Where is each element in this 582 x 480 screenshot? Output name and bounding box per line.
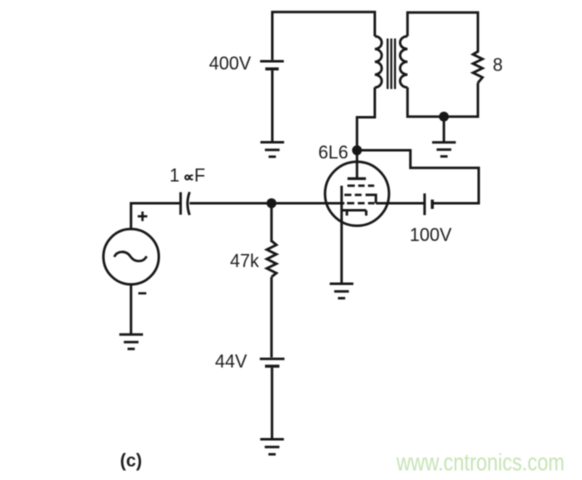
svg-text:8: 8	[493, 55, 503, 75]
plus sign	[138, 212, 148, 222]
wire: primary bottom jog to 6L6 plate node	[357, 87, 375, 150]
svg-text:www.cntronics.com: www.cntronics.com	[396, 450, 565, 477]
tube cathode	[342, 210, 367, 215]
wire: plate node to screen loop (right), down to 100V battery	[357, 150, 479, 203]
battery B1 400V	[260, 61, 284, 69]
svg-text:(c): (c)	[120, 451, 142, 471]
wire: node down to 47k	[270, 203, 273, 242]
wire: 47k bottom to 44V battery	[270, 277, 273, 357]
resistor R2 47k	[267, 241, 277, 277]
wire: input node to tube grid 1	[272, 202, 345, 205]
transformer T1 core	[388, 39, 395, 90]
wire: junction to ground	[443, 117, 446, 142]
node: secondary-ground junction	[439, 112, 449, 122]
tube plate	[348, 177, 366, 180]
ground (44V battery)	[260, 439, 284, 454]
wire: secondary top to load resistor	[408, 13, 478, 53]
minus sign	[138, 292, 146, 294]
svg-text:100V: 100V	[410, 225, 452, 245]
tube plate lead	[356, 150, 359, 178]
wire: 44V bottom to ground	[271, 368, 274, 439]
wire: 400V battery top to transformer primary top	[272, 12, 375, 60]
node B: grid input node	[267, 198, 277, 208]
wire: source bottom to ground	[130, 284, 133, 334]
AC source V1	[103, 229, 158, 284]
wire: capacitor to input node	[190, 202, 272, 205]
tube grid 1 control (dashed)	[347, 202, 375, 204]
tube grid 3 (dashed, tied to cathode line)	[347, 184, 374, 186]
svg-text:47k: 47k	[230, 251, 260, 271]
ground (AC source)	[119, 335, 143, 349]
battery B2 44V	[260, 359, 285, 366]
transformer T1 primary winding	[375, 36, 382, 87]
svg-text:6L6: 6L6	[318, 143, 348, 163]
ground (secondary center tap)	[432, 142, 456, 156]
node A: 6L6 plate node	[352, 145, 362, 155]
wire: 400V battery bottom to ground	[271, 70, 274, 142]
svg-text:44V: 44V	[215, 351, 247, 371]
tube grid 2 screen (dashed) with tap to right	[344, 194, 361, 196]
sine symbol	[114, 252, 146, 261]
svg-text:F: F	[194, 165, 205, 185]
tube U1 6L6 envelope	[325, 162, 389, 226]
wire: 100V battery to tube screen tap	[376, 202, 425, 205]
battery B3 100V	[425, 193, 433, 215]
resistor R1 8 ohm	[473, 52, 483, 83]
label 1 uF	[170, 165, 206, 185]
svg-text:1: 1	[170, 165, 180, 185]
tube beam plate / cathode lead (vertical)	[340, 186, 343, 284]
wire: resistor bottom / secondary bottom	[408, 83, 478, 117]
ground (cathode)	[330, 284, 354, 298]
glyph: proportional-to (mu stand-in)	[185, 175, 193, 179]
svg-text:400V: 400V	[209, 54, 251, 74]
ground (below 400V battery)	[260, 142, 284, 156]
transformer T1 secondary winding	[400, 36, 407, 87]
capacitor C1 1uF	[181, 192, 190, 215]
wire: source top to coupling capacitor	[131, 203, 180, 229]
